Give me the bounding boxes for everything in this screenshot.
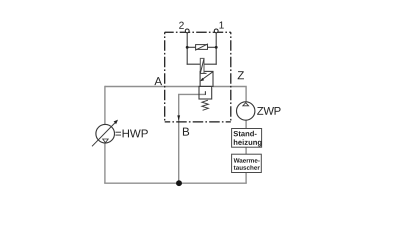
svg-text:tauscher: tauscher <box>234 165 261 172</box>
resistor (adjustable, rect with diagonal) <box>195 44 208 51</box>
svg-text:heizung: heizung <box>233 138 262 147</box>
coil loop right wire (terminal 1 down) <box>215 32 217 65</box>
wire Waermetauscher to bottom line <box>245 172 247 183</box>
spring (valve return) <box>202 100 208 110</box>
box Standheizung <box>232 129 263 148</box>
valve body square <box>200 71 213 86</box>
wire resistor right lead <box>208 46 217 48</box>
enclosure dash-dot boundary box <box>165 32 231 122</box>
box Waermetauscher <box>232 154 262 172</box>
pump HWP circle body <box>96 124 115 143</box>
valve lower position box (blocked port B) <box>199 86 212 99</box>
box Waermetauscher outline <box>232 154 262 172</box>
svg-text:Stand-: Stand- <box>233 129 257 138</box>
svg-text:ZWP: ZWP <box>257 106 281 118</box>
proportional solenoid plunger (rect with diagonal) <box>200 58 204 73</box>
valve position square (variable throttle, arrow) <box>200 71 213 86</box>
solenoid armature rect <box>200 58 204 73</box>
pump HWP arrowhead <box>114 120 118 125</box>
junction dot right (coil loop) <box>215 46 218 49</box>
svg-text:B: B <box>182 126 190 139</box>
wire Z line (valve to ZWP) <box>213 87 246 103</box>
wire left vertical (A corner down through HWP pump) <box>104 86 106 183</box>
pump ZWP circle body <box>237 102 255 120</box>
wire ZWP to Standheizung <box>245 120 247 129</box>
wire B line (valve port B down to bottom line) <box>179 94 206 183</box>
valve lower box body <box>199 86 212 99</box>
wire Standheizung to Waermetauscher <box>245 147 247 155</box>
coil loop bottom wire <box>187 63 217 65</box>
pump ZWP flow triangle <box>243 103 249 106</box>
wire bottom return line <box>104 182 247 184</box>
svg-text:2: 2 <box>179 21 185 32</box>
resistor adjustment slash <box>195 44 208 51</box>
svg-text:Z: Z <box>237 69 244 82</box>
terminal 1 <box>214 29 218 33</box>
svg-text:=HWP: =HWP <box>115 128 149 140</box>
pump HWP flow triangle <box>103 139 109 143</box>
box Standheizung outline <box>232 129 262 148</box>
coil loop left wire (terminal 2 down) <box>186 32 188 65</box>
svg-text:A: A <box>154 75 162 88</box>
pump HWP variable-displacement arrow shaft <box>92 123 115 146</box>
junction dot left (coil loop) <box>186 46 189 49</box>
svg-text:1: 1 <box>219 21 225 32</box>
valve throttle arrow shaft <box>201 72 212 80</box>
junction node (B line joins bottom return line) <box>176 180 182 186</box>
valve seat line <box>200 72 206 74</box>
wire resistor left lead <box>187 46 195 48</box>
pump ZWP (circle with triangle) <box>237 102 255 120</box>
wire A line (HWP to valve port A) <box>105 86 200 88</box>
valve throttle arrowhead <box>200 78 204 81</box>
resistor body <box>196 45 208 50</box>
terminal 2 <box>185 29 189 33</box>
solenoid armature slash <box>200 59 204 73</box>
pump HWP (variable, circle with arrow) <box>92 120 118 147</box>
svg-text:Waerme-: Waerme- <box>234 158 260 165</box>
valve blocked-port T stub <box>204 91 206 95</box>
arrowhead flow direction B <box>177 115 180 120</box>
